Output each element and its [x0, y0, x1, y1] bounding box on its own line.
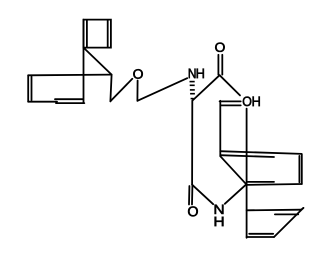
atom label O acid: [215, 43, 224, 52]
atom label O of OH: [243, 97, 251, 107]
double bond C=O acid line 1: [217, 55, 219, 75]
bond CH2 up to O ester: [110, 79, 132, 102]
bond carbonyl to OH: [220, 75, 240, 95]
bond vertical shared edge left: [83, 20, 85, 104]
double bond inner above bottom: [249, 233, 273, 235]
double bond inner line left of square: [86, 21, 88, 47]
ring phenol top edge: [220, 100, 241, 102]
atom label O ester: [133, 69, 142, 79]
atom label H carbamate: [197, 69, 204, 78]
bond N anilide to ring junction: [225, 184, 247, 204]
ring right edge outer: [301, 154, 303, 184]
bond O ester down: [136, 81, 138, 101]
ring middle horizontal outer: [220, 151, 301, 154]
atom label N carbamate: [189, 69, 196, 78]
bond diagonal right ring: [274, 208, 303, 237]
double bond inner below top edge: [275, 213, 298, 215]
bond alpha carbon to acid carbonyl: [192, 75, 219, 100]
double bond inner line phenol top: [221, 104, 241, 106]
atom label H anilide: [215, 217, 224, 226]
ring benzene left rectangle top edge: [28, 74, 111, 77]
double bond inner right edge: [298, 156, 300, 182]
bond diagonal corner to junction: [220, 156, 246, 184]
bond bottom lower segment: [56, 102, 84, 104]
bond C9 down to CH2: [110, 75, 111, 102]
ring cyclobutene top square outer: [84, 20, 111, 48]
atom label H of OH: [253, 97, 260, 106]
ring benzene left rectangle bottom edge: [28, 101, 57, 103]
ring bottom-right top edge: [247, 209, 302, 212]
bond up to NH carbamate: [137, 78, 187, 101]
bond amide carbonyl to N anilide: [192, 185, 213, 205]
double bond C=O acid line 2: [221, 55, 223, 75]
ring benzene left rectangle left edge: [27, 75, 29, 101]
double bond inner middle horizontal: [220, 155, 274, 157]
ring bottom-right bottom edge: [247, 236, 274, 238]
atom label O amide: [188, 206, 198, 216]
double bond C=O amide line 2: [191, 186, 193, 205]
hashed wedge bond stereo: [190, 82, 195, 99]
double bond inner line left rectangle: [31, 77, 33, 101]
double bond inner line right of square: [107, 20, 109, 46]
ring phenol left edge: [219, 101, 221, 157]
bond long vertical below OH: [246, 109, 248, 238]
ring right rect bottom edge: [247, 183, 302, 186]
double bond inner line bottom: [55, 98, 83, 100]
atom label N anilide: [215, 205, 224, 214]
bond tick top-right: [301, 208, 303, 210]
bond diagonal square corner to C9: [84, 48, 112, 75]
bond alpha carbon down to amide carbonyl: [191, 101, 193, 185]
double bond inner above bottom edge: [248, 181, 274, 183]
double bond C=O amide line 1: [188, 186, 190, 205]
